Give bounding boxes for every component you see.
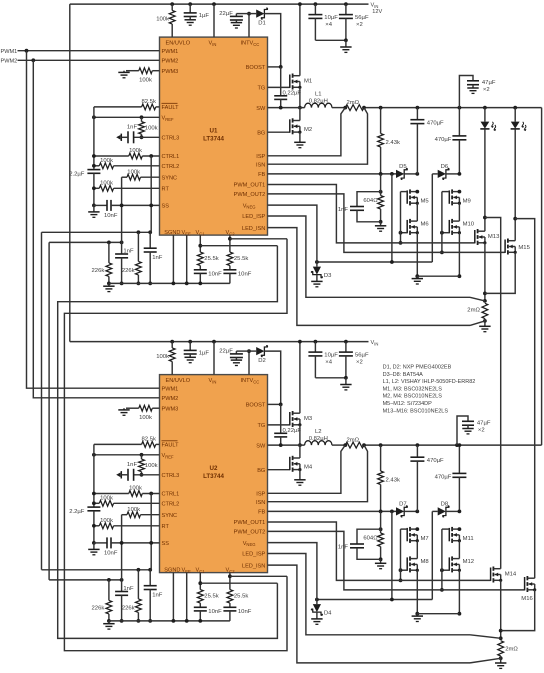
wire VOUT right edge link (541, 108, 543, 446)
resistor 226k first (108, 242, 110, 263)
svg-text:1nF: 1nF (338, 207, 349, 213)
wire PWM2 to U2 (33, 60, 159, 398)
resistor 100k CTRL2 (94, 165, 99, 167)
svg-text:470µF: 470µF (427, 120, 444, 126)
transistor M11 (448, 528, 450, 541)
svg-text:1µF: 1µF (199, 13, 210, 19)
diode D3 schottky to ground (268, 205, 317, 262)
wire bus under IC 1 (42, 569, 151, 571)
svg-text:12V: 12V (372, 9, 382, 15)
wire gate bracket M5/M6 (400, 529, 402, 580)
wire SGND stub (172, 573, 174, 621)
svg-text:100k: 100k (139, 415, 152, 421)
resistor 100k CTRL1 (94, 155, 129, 157)
svg-text:ISN: ISN (256, 162, 265, 168)
svg-text:PWM1: PWM1 (1, 49, 18, 55)
capacitor 10nF SS (94, 204, 107, 206)
svg-text:BOOST: BOOST (246, 65, 266, 71)
svg-text:M7: M7 (421, 536, 429, 542)
capacitor 10nF SS (94, 542, 107, 544)
capacitor 470uF (416, 443, 420, 447)
svg-text:LT3744: LT3744 (203, 136, 224, 143)
svg-text:SGND: SGND (164, 230, 180, 236)
svg-text:D3: D3 (324, 273, 332, 279)
svg-text:1nF: 1nF (127, 124, 138, 130)
svg-text:SW: SW (256, 106, 266, 112)
svg-text:47µF: 47µF (482, 80, 496, 86)
svg-text:2.2µF: 2.2µF (69, 509, 85, 515)
wire PWM3 (126, 70, 139, 72)
ground LED sense bottom (495, 662, 506, 664)
wire ISP sense (268, 445, 346, 493)
capacitor 1nF first (121, 580, 123, 592)
capacitor 1nF second (149, 232, 151, 248)
transistor M9 (448, 190, 450, 203)
svg-text:M5–M12: Si7234DP: M5–M12: Si7234DP (383, 401, 433, 407)
svg-text:PWM1: PWM1 (162, 49, 179, 55)
wire VC1 link (200, 245, 277, 247)
capacitor 470uF (416, 106, 420, 110)
svg-text:M5: M5 (421, 198, 430, 204)
svg-text:10nF: 10nF (238, 609, 252, 615)
wire PWM_OUT1 bus (268, 522, 491, 580)
resistor 226k second (137, 232, 139, 261)
svg-text:0.82µH: 0.82µH (309, 99, 328, 105)
transistor M8 (406, 557, 408, 570)
svg-text:M12: M12 (463, 559, 474, 565)
capacitor 1uF (188, 340, 192, 344)
transistor M5 (406, 190, 408, 203)
svg-text:100k: 100k (100, 181, 113, 187)
svg-text:LED_ISN: LED_ISN (242, 563, 265, 569)
svg-text:D1, D2: NXP PMEG4002EB: D1, D2: NXP PMEG4002EB (383, 365, 452, 371)
capacitor 1nF CTRL3 (134, 474, 160, 476)
transistor M6 (406, 220, 408, 233)
wire bus under IC 2 (49, 241, 122, 243)
ground dim FETs (417, 275, 459, 277)
capacitor 0.22uF boost (280, 404, 282, 433)
capacitor 0.22uF boost (280, 67, 282, 96)
wire SW (268, 444, 305, 446)
resistor 2mOhm LED sense bottom (499, 636, 503, 640)
wire PWM_OUT2 bus (268, 194, 505, 253)
wire SYNC vertical (121, 515, 123, 580)
svg-text:10nF: 10nF (104, 550, 118, 556)
capacitor 10nF VC1 (194, 606, 207, 608)
ground SS (93, 543, 95, 550)
svg-text:10µF: 10µF (324, 353, 338, 359)
svg-text:470µF: 470µF (435, 137, 452, 143)
wire VREF (94, 454, 160, 456)
svg-text:CTRL3: CTRL3 (162, 473, 180, 479)
svg-text:LT3744: LT3744 (203, 473, 224, 480)
ground M2 source (294, 479, 305, 481)
svg-text:INTVCC: INTVCC (241, 41, 260, 47)
svg-text:M2, M4: BSC010NE2LS: M2, M4: BSC010NE2LS (383, 394, 443, 400)
svg-text:10nF: 10nF (238, 271, 252, 277)
svg-text:PWM2: PWM2 (162, 59, 179, 65)
wire LED_ISP sense (268, 554, 471, 635)
svg-text:25.5k: 25.5k (204, 594, 218, 600)
svg-text:VIN: VIN (371, 340, 379, 346)
svg-text:CTRL2: CTRL2 (162, 502, 180, 508)
svg-text:25.5k: 25.5k (204, 256, 218, 262)
svg-text:1nF: 1nF (123, 586, 134, 592)
op-amp-IC U1 LT3744 (160, 37, 268, 235)
svg-text:226k: 226k (92, 268, 105, 274)
svg-text:0.22µF: 0.22µF (283, 91, 302, 97)
resistor 100k EN/UVLO pullup (170, 2, 174, 6)
resistor 100k CTRL2 (94, 502, 99, 504)
svg-text:M3: M3 (304, 416, 313, 422)
svg-text:SS: SS (162, 204, 170, 210)
svg-text:D8: D8 (441, 502, 449, 508)
svg-text:10nF: 10nF (208, 609, 222, 615)
svg-text:10nF: 10nF (104, 213, 118, 219)
capacitor 22uF INTVCC (248, 14, 250, 37)
svg-text:PWM3: PWM3 (162, 406, 179, 412)
resistor 604Ohm (379, 190, 383, 194)
capacitor 10nF VC2 (223, 269, 236, 271)
wire LED_ISN sense (268, 565, 471, 663)
ground input caps (315, 39, 346, 41)
svg-text:RT: RT (162, 524, 170, 530)
svg-text:FAULT: FAULT (162, 443, 180, 449)
capacitor 10uF x4 (314, 340, 318, 344)
wire ISP sense (268, 108, 346, 156)
capacitor 1nF CTRL3 (134, 136, 160, 138)
wire bus under IC 1 (42, 231, 151, 233)
capacitor 470uF second (458, 445, 460, 473)
resistor 25.5k VC2 (229, 235, 231, 252)
svg-text:100k: 100k (156, 354, 169, 360)
capacitor 10uF x4 (314, 2, 318, 6)
ground 604Ohm (380, 559, 382, 563)
resistor 82.5k FAULT (94, 106, 142, 108)
svg-text:100k: 100k (100, 158, 113, 164)
wire BOOST (268, 403, 281, 405)
wire VIN feed to U2 rail (69, 4, 71, 342)
svg-text:470µF: 470µF (435, 475, 452, 481)
svg-text:L1, L2: VISHAY IHLP-5050FD-ERR: L1, L2: VISHAY IHLP-5050FD-ERR82 (383, 379, 476, 385)
transistor M10 (448, 220, 450, 233)
svg-text:L2: L2 (315, 429, 322, 435)
svg-text:VNEG: VNEG (243, 203, 256, 209)
svg-text:100k: 100k (145, 126, 158, 132)
svg-text:M13–M16: BSC010NE2LS: M13–M16: BSC010NE2LS (383, 408, 449, 414)
capacitor 56uF x2 (344, 340, 348, 344)
svg-text:SS: SS (162, 541, 170, 547)
wire FB (268, 510, 397, 512)
wire VEE stub (186, 235, 188, 283)
resistor 226k second (137, 570, 139, 599)
svg-text:M15: M15 (518, 245, 530, 251)
svg-text:×2: ×2 (356, 359, 363, 365)
wire LED_ISP sense (268, 216, 471, 297)
svg-text:LED_ISP: LED_ISP (242, 214, 265, 220)
svg-text:VREF: VREF (162, 116, 175, 122)
wire VC2 link (230, 575, 287, 577)
svg-text:100k: 100k (100, 518, 113, 524)
wire ground bus (109, 620, 230, 622)
wire ISN sense (268, 108, 368, 165)
svg-text:56µF: 56µF (355, 15, 369, 21)
resistor 82.5k FAULT (94, 443, 142, 445)
svg-text:M2: M2 (304, 127, 312, 133)
svg-text:M11: M11 (463, 536, 474, 542)
wire CTRL1 vertical (150, 156, 152, 232)
wire VEE stub (186, 573, 188, 621)
svg-text:VREF: VREF (162, 453, 175, 459)
svg-text:CTRL2: CTRL2 (162, 164, 180, 170)
transistor M14 (490, 568, 492, 581)
svg-text:M13: M13 (488, 234, 500, 240)
svg-text:D7: D7 (399, 502, 407, 508)
wire VC1 link (200, 582, 277, 584)
diode D2 schottky (249, 350, 256, 352)
svg-text:D1: D1 (258, 21, 266, 27)
ground dim FETs (417, 613, 459, 615)
svg-text:47µF: 47µF (477, 421, 491, 427)
svg-text:2.43k: 2.43k (386, 140, 400, 146)
resistor 604Ohm (379, 527, 383, 531)
svg-text:100k: 100k (156, 16, 169, 22)
wire BOOST (268, 66, 281, 68)
svg-text:ISP: ISP (256, 492, 265, 498)
resistor 2mOhm sense (345, 105, 364, 111)
wire bus under IC 2 (49, 579, 122, 581)
resistor 100k CTRL1 (94, 493, 129, 495)
svg-text:RT: RT (162, 187, 170, 193)
wire VC2 link (230, 238, 287, 240)
svg-text:PWM2: PWM2 (1, 58, 18, 64)
svg-text:0.22µF: 0.22µF (283, 428, 302, 434)
wire gate bracket M5/M6 (400, 192, 402, 243)
wire SW (268, 107, 305, 109)
capacitor 1nF second (149, 570, 151, 586)
svg-text:1nF: 1nF (152, 255, 163, 261)
svg-text:CTRL1: CTRL1 (162, 492, 180, 498)
wire VREF (94, 116, 160, 118)
svg-text:SYNC: SYNC (162, 175, 178, 181)
svg-text:INTVCC: INTVCC (241, 378, 260, 384)
svg-text:BOOST: BOOST (246, 403, 266, 409)
svg-text:22µF: 22µF (219, 11, 233, 17)
svg-text:VIN: VIN (209, 41, 217, 47)
svg-text:100k: 100k (145, 463, 158, 469)
svg-text:2.2µF: 2.2µF (69, 171, 85, 177)
svg-text:2mΩ: 2mΩ (347, 438, 360, 444)
diode D7 schottky (396, 507, 404, 515)
svg-text:TG: TG (258, 423, 266, 429)
resistor 25.5k VC1 (199, 235, 201, 252)
svg-text:D5: D5 (399, 164, 407, 170)
svg-text:TG: TG (258, 86, 266, 92)
ground M2 source (294, 141, 305, 143)
wire VIN stub (212, 2, 216, 6)
svg-text:25.5k: 25.5k (234, 594, 248, 600)
svg-text:VIN: VIN (371, 3, 379, 9)
wire PWM1 to U2 (27, 51, 160, 389)
svg-text:PWM3: PWM3 (162, 69, 179, 75)
svg-text:100k: 100k (127, 169, 140, 175)
wire bus1 link (41, 232, 43, 570)
transistor M2 (268, 131, 290, 133)
svg-text:CTRL3: CTRL3 (162, 136, 180, 142)
inductor L1 0.82uH (305, 103, 332, 107)
resistor 100k EN/UVLO pullup (170, 340, 174, 344)
svg-text:2mΩ: 2mΩ (505, 647, 518, 653)
resistor 100k VREF-CTRL3 (141, 455, 143, 459)
wire bus2 link (48, 242, 50, 580)
transistor M13 (474, 230, 476, 243)
svg-text:2.43k: 2.43k (386, 478, 400, 484)
resistor 2.43k (379, 443, 383, 447)
wire SYNC vertical (121, 177, 123, 242)
capacitor 47uF x2 (455, 443, 459, 447)
svg-text:604Ω: 604Ω (363, 198, 378, 204)
wire SGND stub (172, 235, 174, 283)
svg-text:SW: SW (256, 443, 266, 449)
input arrow CTRL3 (116, 473, 120, 478)
svg-text:M10: M10 (463, 222, 475, 228)
svg-text:M6: M6 (421, 222, 430, 228)
svg-text:EN/UVLO: EN/UVLO (166, 40, 191, 46)
diode D4 schottky to ground (268, 543, 317, 600)
capacitor 1nF FB (357, 192, 381, 207)
wire gate bracket M9/M10 (441, 529, 443, 590)
svg-text:PWM1: PWM1 (162, 386, 179, 392)
wire PWM3 (126, 407, 139, 409)
svg-text:FB: FB (258, 510, 265, 516)
svg-text:U2: U2 (210, 465, 218, 472)
capacitor 1nF first (121, 242, 123, 254)
svg-text:1µF: 1µF (199, 351, 210, 357)
resistor 2.43k (379, 106, 383, 110)
ground input caps (315, 377, 346, 379)
capacitor 1uF (188, 2, 192, 6)
wire VIN stub (212, 340, 216, 344)
capacitor 1nF FB (357, 529, 381, 544)
resistor 100k RT (94, 187, 99, 189)
svg-text:SGND: SGND (164, 568, 180, 574)
svg-text:100k: 100k (129, 148, 142, 154)
capacitor 470uF second (458, 108, 460, 136)
svg-text:D6: D6 (441, 164, 449, 170)
diode D8 schottky (432, 510, 437, 512)
vertical FAULT/VREF/CTRL bus (93, 444, 95, 507)
svg-text:2mΩ: 2mΩ (347, 100, 360, 106)
svg-text:100k: 100k (100, 496, 113, 502)
ground cluster (108, 621, 110, 624)
svg-text:226k: 226k (92, 605, 105, 611)
svg-text:U1: U1 (210, 128, 218, 135)
svg-text:M14: M14 (505, 571, 517, 577)
diode D1 schottky (249, 13, 256, 15)
svg-text:10µF: 10µF (324, 15, 338, 21)
svg-text:100k: 100k (127, 507, 140, 513)
transistor M7 (406, 528, 408, 541)
svg-text:M1, M3: BSC032NE2LS: M1, M3: BSC032NE2LS (383, 386, 443, 392)
capacitor 10nF VC1 (194, 269, 207, 271)
svg-text:100k: 100k (139, 77, 152, 83)
svg-text:M9: M9 (463, 198, 471, 204)
svg-text:226k: 226k (122, 268, 135, 274)
wire CTRL1 vertical (150, 494, 152, 570)
svg-text:100k: 100k (129, 486, 142, 492)
wire gate bracket M9/M10 (441, 192, 443, 253)
resistor 100k SYNC (122, 514, 127, 516)
capacitor 10nF VC2 (223, 606, 236, 608)
LED string 1 (483, 106, 487, 110)
wire VIN rail U2 (70, 341, 369, 343)
capacitor 56uF x2 (344, 2, 348, 6)
svg-text:SYNC: SYNC (162, 513, 178, 519)
svg-text:M1: M1 (304, 79, 312, 85)
svg-text:×4: ×4 (325, 359, 332, 365)
svg-text:10nF: 10nF (208, 271, 222, 277)
wire PWM_OUT1 bus (268, 185, 475, 243)
ground LED sense top (479, 325, 490, 327)
wire VC2 inter-link (64, 239, 287, 651)
svg-text:PWM_OUT2: PWM_OUT2 (234, 192, 266, 198)
svg-text:VNEG: VNEG (243, 541, 256, 547)
svg-text:M4: M4 (304, 465, 313, 471)
diode D6 schottky (432, 173, 437, 175)
svg-text:25.5k: 25.5k (234, 256, 248, 262)
svg-text:M8: M8 (421, 559, 430, 565)
resistor 2mOhm sense (345, 442, 364, 448)
resistor 2mOhm LED sense top (483, 299, 487, 303)
svg-text:LED_ISP: LED_ISP (242, 552, 265, 558)
svg-text:CTRL1: CTRL1 (162, 154, 180, 160)
svg-text:226k: 226k (122, 605, 135, 611)
svg-text:LED_ISN: LED_ISN (242, 226, 265, 232)
ground PWM3 (123, 408, 125, 410)
svg-text:BG: BG (257, 130, 265, 136)
svg-text:D4: D4 (324, 611, 332, 617)
inductor L2 0.82uH (305, 441, 332, 445)
op-amp-IC U2 LT3744 (160, 375, 268, 573)
svg-text:82.5k: 82.5k (141, 99, 155, 105)
ground PWM3 (123, 71, 125, 73)
transistor M3 (268, 424, 290, 426)
wire LED2 cathode to M16 drain (515, 219, 535, 579)
svg-text:M16: M16 (521, 596, 533, 602)
svg-text:0.82µH: 0.82µH (309, 436, 328, 442)
wire FB (268, 173, 397, 175)
capacitor 22uF INTVCC (248, 351, 250, 375)
svg-text:FAULT: FAULT (162, 105, 180, 111)
resistor 25.5k VC1 (199, 573, 201, 590)
svg-text:1nF: 1nF (152, 593, 163, 599)
svg-text:2mΩ: 2mΩ (467, 307, 480, 313)
wire PWM_OUT2 bus (268, 531, 525, 590)
svg-text:ISN: ISN (256, 500, 265, 506)
LED string 2 (513, 106, 517, 110)
resistor 100k SYNC (122, 176, 127, 178)
resistor 226k first (108, 580, 110, 601)
transistor M15 (504, 240, 506, 253)
ground SS (93, 205, 95, 212)
capacitor 2.2uF (87, 506, 100, 508)
svg-text:PWM_OUT1: PWM_OUT1 (234, 520, 266, 526)
svg-text:82.5k: 82.5k (141, 436, 155, 442)
transistor M4 (268, 469, 290, 471)
transistor M1 (268, 86, 290, 88)
svg-text:EN/UVLO: EN/UVLO (166, 378, 191, 384)
svg-text:ISP: ISP (256, 154, 265, 160)
